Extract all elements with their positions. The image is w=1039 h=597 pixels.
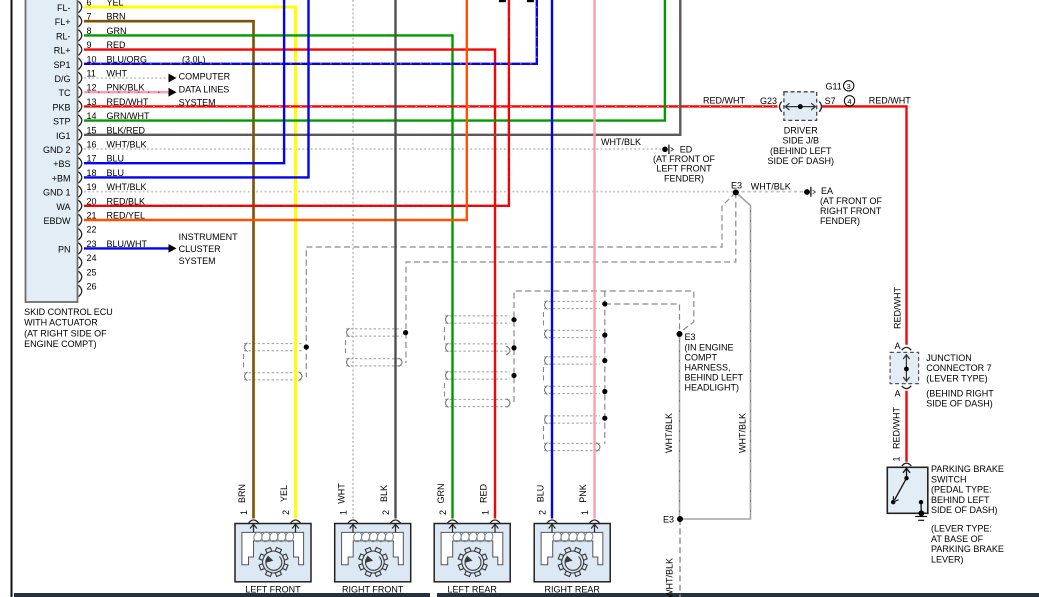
svg-text:TC: TC <box>59 88 71 98</box>
junction dot right front shield <box>403 330 408 335</box>
JC7 entry bracket top <box>902 347 912 350</box>
wire BLU/ORG pin10 up to top edge <box>84 0 537 64</box>
svg-text:CLUSTER: CLUSTER <box>179 244 222 254</box>
switch internal: right contact to ground <box>919 500 923 504</box>
svg-text:LEFT FRONT: LEFT FRONT <box>656 164 712 174</box>
svg-text:PKB: PKB <box>52 102 70 112</box>
wire RED/WHT pin13 to driver side J/B <box>84 105 778 107</box>
svg-text:WA: WA <box>56 202 70 212</box>
connector ED symbol <box>662 147 668 153</box>
svg-text:RIGHT FRONT: RIGHT FRONT <box>820 206 882 216</box>
svg-text:SKID CONTROL ECU: SKID CONTROL ECU <box>24 307 113 317</box>
LEFT REAR speed sensor box <box>434 520 510 582</box>
svg-text:PARKING BRAKE: PARKING BRAKE <box>931 464 1004 474</box>
svg-text:GRN: GRN <box>436 484 446 504</box>
svg-text:(IN ENGINE: (IN ENGINE <box>685 342 734 352</box>
svg-text:RIGHT REAR: RIGHT REAR <box>545 585 601 595</box>
svg-text:DATA LINES: DATA LINES <box>179 84 230 94</box>
wire BLK top edge to right front sensor pin2 <box>394 0 396 519</box>
shield wrap right front pair <box>346 328 402 330</box>
circled 3 <box>844 81 854 91</box>
ground symbol <box>915 516 927 518</box>
svg-text:D/G: D/G <box>54 74 70 84</box>
svg-text:19: 19 <box>87 182 97 192</box>
skid control ECU connector box <box>26 0 78 302</box>
RIGHT REAR speed sensor box <box>534 520 610 582</box>
svg-text:HEADLIGHT): HEADLIGHT) <box>685 382 740 392</box>
svg-text:GND 2: GND 2 <box>43 145 71 155</box>
svg-text:IG1: IG1 <box>56 131 71 141</box>
svg-text:EA: EA <box>821 186 833 196</box>
svg-text:11: 11 <box>87 69 96 79</box>
svg-text:SIDE J/B: SIDE J/B <box>783 136 820 146</box>
svg-text:S7: S7 <box>825 96 836 106</box>
JC7 exit bracket bottom <box>902 386 912 389</box>
switch internal: pin arrow <box>906 469 908 478</box>
svg-text:FENDER): FENDER) <box>820 216 860 226</box>
switch internal: common dot <box>904 476 908 480</box>
switch entry bracket <box>902 463 912 466</box>
engine compartment harness dashed branch to left-front pair <box>306 192 736 377</box>
svg-text:WHT: WHT <box>107 69 128 79</box>
wire RED/BLK pin20 up to top edge <box>84 0 509 206</box>
svg-text:2: 2 <box>281 510 291 515</box>
svg-text:SYSTEM: SYSTEM <box>179 97 216 107</box>
wire WHT/BLK pin19 to E3 <box>84 191 736 193</box>
svg-text:E3: E3 <box>731 181 742 191</box>
svg-text:RED/WHT: RED/WHT <box>869 96 911 106</box>
svg-text:RED/WHT: RED/WHT <box>703 96 745 106</box>
shield wrap right rear pair <box>544 300 600 302</box>
wire PNK/BLK pin12 to computer data lines <box>84 91 170 93</box>
svg-text:WHT/BLK: WHT/BLK <box>664 413 674 453</box>
svg-text:WHT/BLK: WHT/BLK <box>751 181 791 191</box>
svg-text:JUNCTION: JUNCTION <box>926 353 972 363</box>
circled 4 <box>844 96 854 106</box>
svg-text:A: A <box>894 341 900 351</box>
svg-text:SYSTEM: SYSTEM <box>179 256 216 266</box>
svg-text:SWITCH: SWITCH <box>931 474 967 484</box>
svg-text:PN: PN <box>58 244 71 254</box>
svg-text:AT BASE OF: AT BASE OF <box>931 534 984 544</box>
svg-text:WHT: WHT <box>337 483 347 504</box>
svg-text:G11: G11 <box>826 82 842 92</box>
svg-text:WITH ACTUATOR: WITH ACTUATOR <box>24 318 98 328</box>
svg-text:PNK: PNK <box>578 484 588 503</box>
arrow instrument cluster pin23 <box>169 244 177 253</box>
svg-text:1: 1 <box>892 456 902 461</box>
wire BLU pin18 up to top edge <box>84 0 309 177</box>
engine compartment harness dashed branch to right-front pair <box>406 192 736 363</box>
wire PNK top edge to right rear sensor pin1 <box>593 0 595 519</box>
engine compartment harness dashed branch left-rear pair <box>514 291 694 402</box>
svg-text:COMPUTER: COMPUTER <box>179 71 231 81</box>
svg-text:(LEVER TYPE): (LEVER TYPE) <box>926 373 987 383</box>
JC7 internal arrow <box>905 355 907 381</box>
svg-text:RED/WHT: RED/WHT <box>893 287 903 329</box>
svg-text:22: 22 <box>87 225 97 235</box>
svg-text:4: 4 <box>847 97 851 106</box>
J/B internal bus arrow <box>786 106 816 108</box>
wire WHT/BLK from E3 right branch down to bottom E3 <box>683 192 751 519</box>
wire RED/YEL pin21 up to top edge <box>84 0 467 220</box>
wire WHT/BLK pin16 to ED <box>84 148 663 150</box>
wire BLK/RED pin15 up to top edge <box>84 0 680 135</box>
svg-text:G23: G23 <box>760 96 777 106</box>
svg-text:1: 1 <box>339 510 349 515</box>
arrow computer data lines pin12 <box>169 88 177 97</box>
bottom cut-off text band <box>14 593 1039 597</box>
wire BLU top edge to right rear sensor pin2 <box>551 0 553 519</box>
svg-text:3: 3 <box>847 82 851 91</box>
svg-text:1: 1 <box>580 510 590 515</box>
wire WHT right front sensor <box>352 0 354 519</box>
junction dot left front shield <box>304 344 309 349</box>
svg-text:WHT/BLK: WHT/BLK <box>107 140 147 150</box>
svg-text:FENDER): FENDER) <box>664 174 704 184</box>
wire GRN/WHT pin14 up to top edge <box>84 0 665 121</box>
svg-text:CONNECTOR 7: CONNECTOR 7 <box>926 363 991 373</box>
svg-text:SIDE OF DASH): SIDE OF DASH) <box>931 505 998 515</box>
ECU pin bracket symbols and pin numbers <box>79 1 82 12</box>
shield wrap left front pair <box>244 343 302 345</box>
wire WHT pin11 to computer data lines <box>84 77 170 79</box>
wire YEL pin6 to left front sensor pin2 <box>84 7 296 519</box>
junction E3 upper <box>733 189 739 195</box>
driver side J/B box <box>784 92 817 121</box>
svg-text:ENGINE COMPT): ENGINE COMPT) <box>24 339 97 349</box>
svg-text:SIDE OF DASH): SIDE OF DASH) <box>768 156 835 166</box>
wire GRN pin8 to left rear sensor pin2 <box>84 35 453 518</box>
svg-text:WHT/BLK: WHT/BLK <box>738 413 748 453</box>
svg-text:RED/WHT: RED/WHT <box>892 407 902 449</box>
svg-text:25: 25 <box>87 267 97 277</box>
svg-text:LEFT REAR: LEFT REAR <box>448 585 498 595</box>
svg-text:GND 1: GND 1 <box>43 188 71 198</box>
svg-text:SP1: SP1 <box>53 60 70 70</box>
svg-text:WHT/BLK: WHT/BLK <box>665 558 675 597</box>
page left border frame <box>11 0 13 597</box>
svg-text:WHT/BLK: WHT/BLK <box>107 182 147 192</box>
wire WHT/BLK E3 to EA <box>736 191 804 193</box>
svg-text:RL+: RL+ <box>54 46 71 56</box>
svg-text:BEHIND LEFT: BEHIND LEFT <box>931 495 990 505</box>
svg-text:(AT RIGHT SIDE OF: (AT RIGHT SIDE OF <box>24 328 107 338</box>
svg-text:PARKING BRAKE: PARKING BRAKE <box>931 544 1004 554</box>
svg-text:FL+: FL+ <box>55 17 71 27</box>
switch internal: left contact dot <box>891 500 895 504</box>
shield wrap left rear pair <box>445 315 510 317</box>
wire WHT/BLK from mid E3 down to bottom E3 <box>679 334 681 519</box>
svg-text:LEVER): LEVER) <box>931 555 964 565</box>
svg-text:DRIVER: DRIVER <box>784 126 819 136</box>
svg-text:24: 24 <box>87 253 97 263</box>
svg-text:26: 26 <box>87 282 97 292</box>
svg-text:BLK: BLK <box>379 485 389 502</box>
svg-text:COMPT: COMPT <box>685 352 718 362</box>
wire BLU pin17 up to top edge <box>84 0 284 163</box>
svg-text:E3: E3 <box>663 515 674 525</box>
junction E3 lower <box>677 516 683 522</box>
svg-text:2: 2 <box>381 510 391 515</box>
svg-text:(PEDAL TYPE:: (PEDAL TYPE: <box>931 485 992 495</box>
svg-text:EBDW: EBDW <box>44 216 72 226</box>
cut-off connector marks at top edge <box>499 0 506 2</box>
LEFT FRONT speed sensor box <box>235 520 311 582</box>
svg-text:WHT/BLK: WHT/BLK <box>601 137 641 147</box>
arrow computer data lines pin11 <box>169 74 177 83</box>
RIGHT FRONT speed sensor box <box>335 520 411 582</box>
svg-text:INSTRUMENT: INSTRUMENT <box>179 232 238 242</box>
svg-text:YEL: YEL <box>279 485 289 502</box>
svg-text:2: 2 <box>438 510 448 515</box>
J/B right bracket S7 <box>819 102 821 112</box>
svg-text:(AT FRONT OF: (AT FRONT OF <box>653 154 716 164</box>
svg-text:2: 2 <box>538 510 548 515</box>
svg-text:HARNESS,: HARNESS, <box>685 362 731 372</box>
svg-text:1: 1 <box>239 510 249 515</box>
svg-text:+BM: +BM <box>52 173 71 183</box>
junction E3 middle <box>677 331 683 337</box>
junction connector 7 box <box>890 352 919 383</box>
svg-text:RL-: RL- <box>56 31 71 41</box>
switch internal: blade <box>895 478 907 500</box>
wire RED/WHT from J/B S7 down right side <box>822 106 907 344</box>
svg-text:RIGHT FRONT: RIGHT FRONT <box>342 585 404 595</box>
engine compartment harness dashed branch right-rear pair <box>604 291 606 444</box>
svg-text:BEHIND LEFT: BEHIND LEFT <box>685 372 744 382</box>
junction dots left rear shield <box>511 317 516 322</box>
junction dots right rear shield <box>602 301 607 306</box>
svg-text:+BS: +BS <box>53 159 70 169</box>
svg-text:RED: RED <box>479 484 489 504</box>
svg-text:(BEHIND LEFT: (BEHIND LEFT <box>770 146 832 156</box>
parking brake switch box <box>887 467 928 513</box>
J/B left bracket G23 <box>780 102 782 112</box>
svg-text:(BEHIND RIGHT: (BEHIND RIGHT <box>926 388 994 398</box>
dashed WHT/BLK below bottom E3 junction <box>679 519 681 597</box>
svg-text:STP: STP <box>53 117 71 127</box>
svg-text:(AT FRONT OF: (AT FRONT OF <box>820 196 883 206</box>
svg-text:A: A <box>894 388 900 398</box>
svg-text:SIDE OF DASH): SIDE OF DASH) <box>926 399 993 409</box>
svg-text:1: 1 <box>481 510 491 515</box>
dark ticks on WHT/BLK wires <box>679 340 681 515</box>
svg-text:BRN: BRN <box>237 484 247 503</box>
wire BRN pin7 to left front sensor pin1 <box>84 21 254 518</box>
svg-text:16: 16 <box>87 140 97 150</box>
svg-text:E3: E3 <box>685 332 696 342</box>
svg-text:BLU: BLU <box>536 485 546 503</box>
wire BLU/WHT pin23 to instrument cluster <box>84 247 170 249</box>
svg-text:LEFT FRONT: LEFT FRONT <box>245 585 301 595</box>
connector EA symbol <box>804 189 810 195</box>
wire RED pin9 to left rear sensor pin1 <box>84 50 495 519</box>
svg-text:FL-: FL- <box>57 3 71 13</box>
svg-text:(LEVER TYPE:: (LEVER TYPE: <box>931 524 992 534</box>
